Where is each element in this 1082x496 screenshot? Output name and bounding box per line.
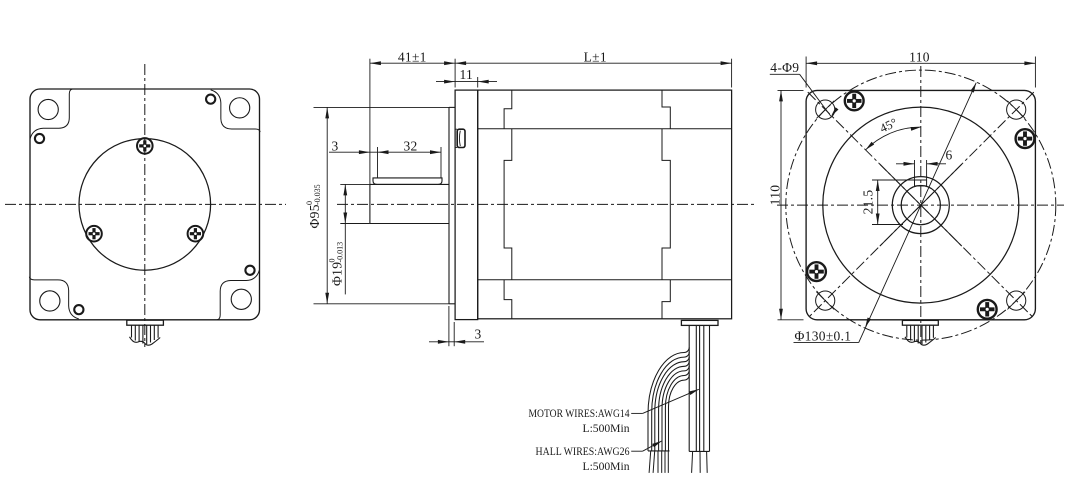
motor wire bundle (straight) <box>688 326 690 452</box>
dimension phi95 <box>305 107 449 303</box>
motor wires below jacket <box>692 451 693 473</box>
right view: motor rear face <box>777 66 1064 345</box>
corner lobe contour, mounting hole, small hole (corner 3) <box>217 266 259 320</box>
svg-text:L±1: L±1 <box>584 49 607 64</box>
shaft circle phi19 <box>901 186 940 225</box>
svg-text:4-Φ9: 4-Φ9 <box>770 60 799 75</box>
svg-text:110: 110 <box>768 185 783 206</box>
body step contour right <box>662 90 670 319</box>
wire grommet cap <box>127 320 164 325</box>
solid diagonal cross lines <box>880 164 962 246</box>
front flange plate <box>455 90 478 320</box>
hall wires below jacket <box>649 451 651 473</box>
centerline vertical <box>144 64 146 347</box>
svg-text:21.5: 21.5 <box>861 190 876 215</box>
svg-text:3: 3 <box>331 138 338 153</box>
centerline diagonal NW-SE <box>808 92 1034 318</box>
svg-text:L:500Min: L:500Min <box>583 421 630 435</box>
motor body outline <box>478 90 732 319</box>
dimension 45deg arc <box>866 115 921 149</box>
dimension 110 left <box>768 90 804 319</box>
dimension 110 top <box>806 50 1035 88</box>
pilot circle phi95 <box>823 107 1019 303</box>
svg-text:L:500Min: L:500Min <box>583 459 630 473</box>
flange outline square <box>806 90 1035 319</box>
svg-text:HALL WIRES:AWG26: HALL WIRES:AWG26 <box>536 444 630 458</box>
screw lower-left <box>86 226 102 242</box>
corner mounting holes 4-phi9 with centre ticks <box>816 100 835 119</box>
dimension L±1 <box>455 49 731 87</box>
wire grommet cap (side view) <box>681 320 718 325</box>
dimension phi19 <box>328 184 370 294</box>
rear cover screws <box>845 92 864 111</box>
bolt circle phi130 <box>786 70 1056 340</box>
label HALL WIRES leader <box>631 450 642 452</box>
svg-text:-0.013: -0.013 <box>336 242 345 263</box>
centerline vertical <box>920 66 922 345</box>
rear wire break wavy line <box>905 337 936 345</box>
terminal detail on flange <box>457 129 465 147</box>
svg-text:-0.035: -0.035 <box>313 184 322 205</box>
svg-text:41±1: 41±1 <box>398 49 427 64</box>
rear wire stubs <box>906 326 908 338</box>
pilot circle <box>79 139 211 271</box>
flange outline square <box>30 89 260 320</box>
wire stubs <box>131 325 133 337</box>
middle view: motor side elevation <box>337 90 757 320</box>
motor bundle end tick <box>689 450 709 452</box>
pilot boss (phi95 spigot) <box>448 107 450 303</box>
centerline horizontal <box>5 203 286 205</box>
dimension 11 (flange thickness) <box>436 67 497 88</box>
dimension 3 (pilot boss height) <box>429 306 484 346</box>
svg-text:45°: 45° <box>878 115 900 135</box>
keyway slot <box>915 180 927 186</box>
corner lobe contour, mounting hole, small hole (corner 1) <box>30 89 72 143</box>
svg-text:MOTOR WIRES:AWG14: MOTOR WIRES:AWG14 <box>529 406 630 420</box>
body step contour left <box>504 90 512 319</box>
screw lower-right <box>188 226 204 242</box>
corner lobe contour, mounting hole, small hole (corner 2) <box>206 90 260 132</box>
centerline shaft axis <box>337 203 757 205</box>
dimension 3 (key end offset) + 32 (key length) <box>329 138 441 177</box>
hall bundle end tick <box>648 450 670 452</box>
hall wire bundle (curved) <box>648 348 689 451</box>
dimension 6 (keyway width) <box>896 148 953 180</box>
label 4-phi9 with leader <box>770 60 839 117</box>
rear wire grommet cap <box>902 320 938 325</box>
shaft hub circle <box>892 177 949 234</box>
centerline horizontal <box>777 204 1064 206</box>
svg-text:11: 11 <box>459 67 473 82</box>
key on shaft (32mm flat) <box>373 178 442 185</box>
label MOTOR WIRES leader <box>631 412 642 414</box>
wire break wavy line <box>130 337 161 345</box>
screw top <box>137 138 153 154</box>
body joint line lower <box>478 279 732 281</box>
corner lobe contour, mounting hole, small hole (corner 4) <box>29 277 83 319</box>
dimension phi130±0.1 with leader <box>794 83 977 344</box>
svg-text:Φ130±0.1: Φ130±0.1 <box>795 329 852 344</box>
svg-text:32: 32 <box>403 138 417 153</box>
dimension 21.5 <box>861 180 917 225</box>
svg-text:Φ95: Φ95 <box>307 204 322 228</box>
svg-text:Φ19: Φ19 <box>330 262 345 286</box>
left view: motor front face <box>5 64 286 347</box>
dimension 41±1 <box>370 49 455 184</box>
centerline diagonal NE-SW <box>808 92 1034 318</box>
body joint line upper <box>478 128 732 130</box>
svg-text:3: 3 <box>474 326 481 341</box>
svg-text:110: 110 <box>909 50 930 65</box>
svg-text:6: 6 <box>945 148 952 163</box>
shaft outline <box>369 184 371 223</box>
